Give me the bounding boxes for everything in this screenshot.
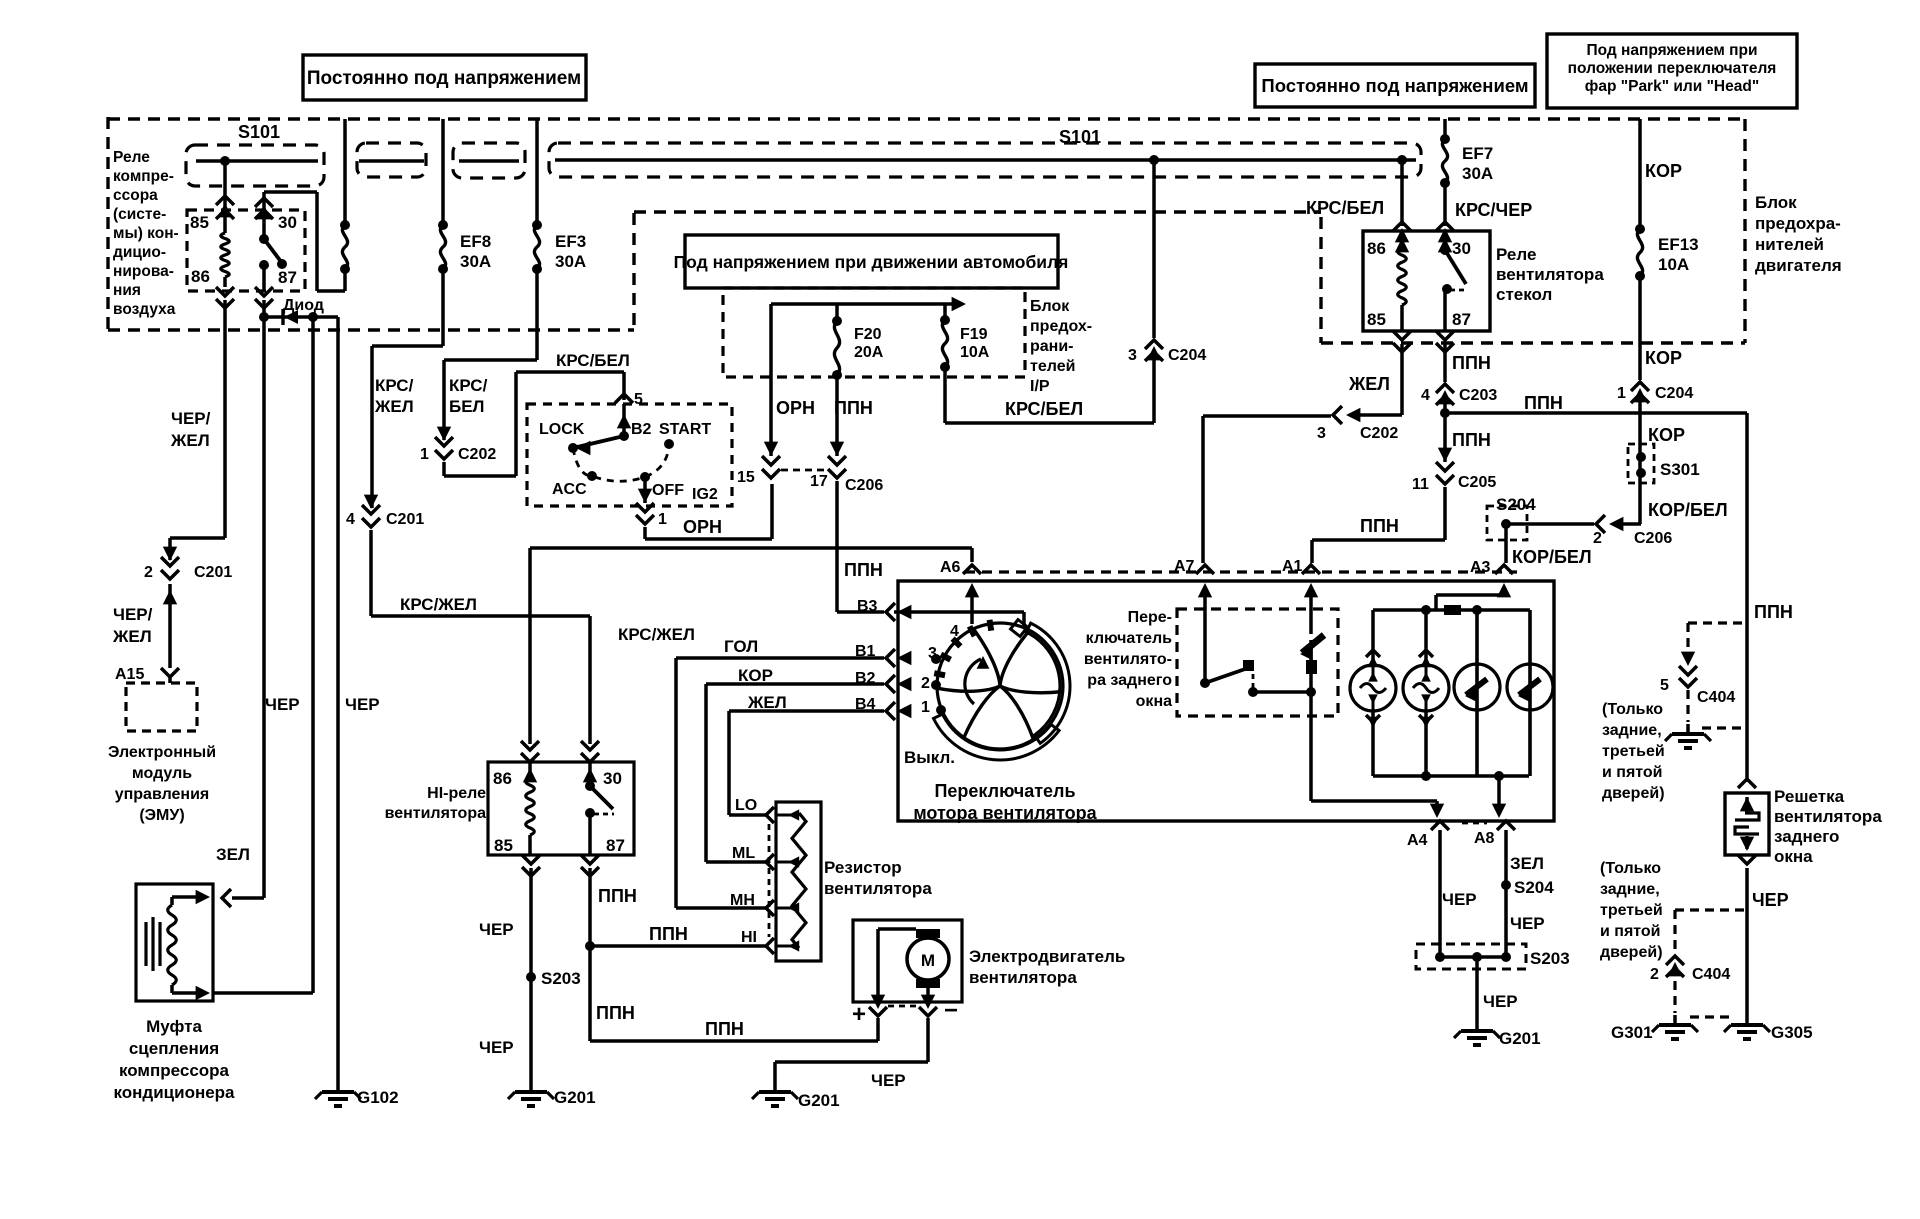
svg-text:ЖЕЛ: ЖЕЛ [112, 627, 152, 646]
svg-text:C404: C404 [1692, 966, 1730, 983]
svg-text:2: 2 [1650, 966, 1659, 983]
svg-text:окна: окна [1136, 693, 1172, 710]
svg-text:86: 86 [493, 769, 512, 788]
svg-text:LO: LO [735, 797, 757, 814]
svg-text:компре-: компре- [113, 168, 174, 185]
svg-text:фар "Park" или "Head": фар "Park" или "Head" [1585, 78, 1759, 95]
svg-text:Под напряжением при движении а: Под напряжением при движении автомобиля [674, 252, 1069, 272]
svg-text:C201: C201 [194, 564, 232, 581]
svg-text:КОР/БЕЛ: КОР/БЕЛ [1648, 500, 1728, 520]
svg-text:дверей): дверей) [1602, 785, 1665, 802]
svg-text:ЧЕР: ЧЕР [1442, 890, 1477, 909]
svg-text:87: 87 [278, 268, 297, 287]
svg-text:10A: 10A [960, 344, 990, 361]
svg-text:вентилятора: вентилятора [385, 805, 487, 822]
svg-text:дверей): дверей) [1600, 944, 1663, 961]
svg-text:B2: B2 [631, 421, 652, 438]
svg-text:(Только: (Только [1602, 701, 1663, 718]
svg-text:G102: G102 [357, 1088, 399, 1107]
svg-text:ЖЕЛ: ЖЕЛ [747, 693, 787, 712]
svg-text:двигателя: двигателя [1755, 256, 1842, 275]
svg-text:телей: телей [1030, 358, 1075, 375]
svg-text:вентилятора: вентилятора [1496, 265, 1604, 284]
svg-text:B3: B3 [857, 598, 878, 615]
svg-text:3: 3 [1317, 425, 1326, 442]
svg-text:85: 85 [1367, 310, 1386, 329]
svg-text:HI-реле: HI-реле [427, 785, 486, 802]
svg-text:нителей: нителей [1755, 235, 1824, 254]
svg-text:C204: C204 [1168, 347, 1206, 364]
svg-text:3: 3 [1128, 347, 1137, 364]
svg-text:ссора: ссора [113, 187, 158, 204]
svg-text:11: 11 [1412, 476, 1429, 493]
svg-text:A6: A6 [940, 559, 961, 576]
svg-text:ППН: ППН [1452, 430, 1491, 450]
svg-text:A4: A4 [1407, 832, 1428, 849]
svg-text:ЗЕЛ: ЗЕЛ [1510, 854, 1544, 873]
svg-text:и пятой: и пятой [1602, 764, 1663, 781]
svg-text:IG2: IG2 [692, 486, 718, 503]
svg-text:ЧЕР: ЧЕР [479, 920, 514, 939]
svg-text:ЧЕР: ЧЕР [479, 1038, 514, 1057]
svg-text:S101: S101 [238, 122, 280, 142]
svg-text:S204: S204 [1514, 878, 1554, 897]
svg-text:C204: C204 [1655, 385, 1693, 402]
svg-text:мотора вентилятора: мотора вентилятора [913, 803, 1097, 823]
svg-text:ОРН: ОРН [776, 398, 815, 418]
svg-text:стекол: стекол [1496, 285, 1552, 304]
svg-text:1: 1 [658, 511, 667, 528]
svg-text:КРС/ЖЕЛ: КРС/ЖЕЛ [400, 595, 477, 614]
svg-text:нирова-: нирова- [113, 263, 174, 280]
svg-text:КРС/ЧЕР: КРС/ЧЕР [1455, 200, 1532, 220]
svg-text:и пятой: и пятой [1600, 923, 1661, 940]
svg-text:ЧЕР/: ЧЕР/ [171, 409, 211, 428]
svg-text:ЧЕР: ЧЕР [1752, 890, 1789, 910]
svg-text:КОР: КОР [738, 666, 773, 685]
svg-text:C201: C201 [386, 511, 424, 528]
svg-text:4: 4 [346, 511, 355, 528]
svg-text:87: 87 [1452, 310, 1471, 329]
svg-text:Переключатель: Переключатель [934, 781, 1075, 801]
svg-text:ОРН: ОРН [683, 517, 722, 537]
svg-text:A7: A7 [1174, 558, 1195, 575]
svg-text:КОР: КОР [1645, 348, 1682, 368]
svg-text:предох-: предох- [1030, 318, 1092, 335]
svg-text:ППН: ППН [1754, 602, 1793, 622]
svg-text:30: 30 [1452, 239, 1471, 258]
svg-text:C202: C202 [1360, 425, 1398, 442]
svg-text:ППН: ППН [596, 1003, 635, 1023]
svg-text:A15: A15 [115, 666, 144, 683]
svg-text:мы) кон-: мы) кон- [113, 225, 179, 242]
svg-text:вентилято-: вентилято- [1084, 651, 1172, 668]
svg-text:ния: ния [113, 282, 141, 299]
svg-text:C203: C203 [1459, 387, 1497, 404]
svg-text:(систе-: (систе- [113, 206, 166, 223]
svg-text:EF7: EF7 [1462, 144, 1493, 163]
svg-text:положении переключателя: положении переключателя [1568, 60, 1777, 77]
svg-text:Выкл.: Выкл. [904, 748, 955, 767]
svg-text:G201: G201 [1499, 1029, 1541, 1048]
svg-text:30A: 30A [1462, 164, 1493, 183]
svg-text:ACC: ACC [552, 481, 587, 498]
svg-text:(Только: (Только [1600, 860, 1661, 877]
svg-text:Диод: Диод [283, 297, 324, 314]
svg-text:предохра-: предохра- [1755, 214, 1841, 233]
svg-text:B4: B4 [855, 696, 876, 713]
svg-text:3: 3 [928, 645, 937, 662]
svg-text:B2: B2 [855, 670, 876, 687]
svg-text:Блок: Блок [1030, 298, 1070, 315]
svg-text:Реле: Реле [113, 149, 150, 166]
svg-text:G201: G201 [798, 1091, 840, 1110]
svg-text:КОР: КОР [1645, 161, 1682, 181]
svg-text:2: 2 [144, 564, 153, 581]
svg-text:ЗЕЛ: ЗЕЛ [216, 845, 250, 864]
svg-text:15: 15 [737, 469, 755, 486]
svg-text:сцепления: сцепления [129, 1039, 219, 1058]
svg-text:ППН: ППН [834, 398, 873, 418]
svg-text:ЖЕЛ: ЖЕЛ [374, 397, 414, 416]
svg-text:ра заднего: ра заднего [1087, 672, 1172, 689]
svg-text:2: 2 [1593, 530, 1602, 547]
svg-text:2: 2 [921, 675, 930, 692]
svg-text:ППН: ППН [1360, 516, 1399, 536]
svg-text:C404: C404 [1697, 689, 1735, 706]
svg-text:HI: HI [741, 929, 757, 946]
svg-text:4: 4 [1421, 387, 1430, 404]
svg-text:ЖЕЛ: ЖЕЛ [170, 431, 210, 450]
svg-text:третьей: третьей [1602, 743, 1665, 760]
svg-text:30A: 30A [555, 252, 586, 271]
svg-text:Постоянно под напряжением: Постоянно под напряжением [307, 68, 581, 89]
svg-text:ЧЕР/: ЧЕР/ [113, 605, 153, 624]
svg-text:ML: ML [732, 845, 755, 862]
svg-text:КРС/БЕЛ: КРС/БЕЛ [556, 351, 630, 370]
svg-text:17: 17 [810, 473, 828, 490]
svg-text:S101: S101 [1059, 127, 1101, 147]
svg-text:C206: C206 [845, 477, 883, 494]
svg-text:КРС/БЕЛ: КРС/БЕЛ [1005, 399, 1083, 419]
svg-text:окна: окна [1774, 847, 1813, 866]
svg-text:86: 86 [191, 267, 210, 286]
svg-text:C202: C202 [458, 446, 496, 463]
svg-text:ЧЕР: ЧЕР [1483, 992, 1518, 1011]
svg-text:управления: управления [115, 786, 210, 803]
svg-text:ЖЕЛ: ЖЕЛ [1348, 374, 1390, 394]
svg-text:C206: C206 [1634, 530, 1672, 547]
svg-text:I/P: I/P [1030, 378, 1050, 395]
svg-text:КРС/ЖЕЛ: КРС/ЖЕЛ [618, 625, 695, 644]
svg-text:A1: A1 [1282, 558, 1303, 575]
svg-text:5: 5 [1660, 677, 1669, 694]
svg-text:компрессора: компрессора [119, 1061, 230, 1080]
svg-text:EF8: EF8 [460, 232, 491, 251]
svg-text:START: START [659, 421, 711, 438]
svg-text:Решетка: Решетка [1774, 787, 1845, 806]
svg-text:Реле: Реле [1496, 245, 1536, 264]
svg-text:30: 30 [603, 769, 622, 788]
svg-text:КОР: КОР [1648, 425, 1685, 445]
svg-text:КРС/: КРС/ [449, 376, 488, 395]
svg-text:85: 85 [190, 213, 209, 232]
svg-text:КРС/БЕЛ: КРС/БЕЛ [1306, 198, 1384, 218]
svg-text:воздуха: воздуха [113, 301, 176, 318]
svg-text:(ЭМУ): (ЭМУ) [139, 807, 184, 824]
svg-text:ППН: ППН [1524, 393, 1563, 413]
svg-text:C205: C205 [1458, 474, 1496, 491]
svg-text:Электронный: Электронный [108, 744, 216, 761]
svg-text:ППН: ППН [844, 560, 883, 580]
svg-text:ЧЕР: ЧЕР [1510, 914, 1545, 933]
svg-text:+: + [852, 1001, 866, 1028]
svg-text:10A: 10A [1658, 255, 1689, 274]
svg-text:30A: 30A [460, 252, 491, 271]
svg-text:КОР/БЕЛ: КОР/БЕЛ [1512, 547, 1592, 567]
svg-text:G301: G301 [1611, 1023, 1653, 1042]
svg-text:MH: MH [730, 892, 755, 909]
svg-text:заднего: заднего [1774, 827, 1839, 846]
svg-text:LOCK: LOCK [539, 421, 585, 438]
svg-text:вентилятора: вентилятора [824, 879, 932, 898]
svg-text:рани-: рани- [1030, 338, 1074, 355]
svg-text:КРС/: КРС/ [375, 376, 414, 395]
svg-text:Резистор: Резистор [824, 858, 902, 877]
svg-text:F19: F19 [960, 326, 988, 343]
svg-text:S204: S204 [1496, 495, 1536, 514]
svg-text:EF3: EF3 [555, 232, 586, 251]
svg-text:ППН: ППН [649, 924, 688, 944]
svg-text:задние,: задние, [1602, 722, 1662, 739]
svg-text:85: 85 [494, 836, 513, 855]
svg-text:Электродвигатель: Электродвигатель [969, 947, 1125, 966]
svg-text:вентилятора: вентилятора [969, 968, 1077, 987]
svg-text:86: 86 [1367, 239, 1386, 258]
svg-text:1: 1 [921, 699, 930, 716]
svg-text:ППН: ППН [705, 1019, 744, 1039]
svg-text:87: 87 [606, 836, 625, 855]
svg-text:задние,: задние, [1600, 881, 1660, 898]
svg-text:OFF: OFF [652, 482, 684, 499]
svg-text:третьей: третьей [1600, 902, 1663, 919]
svg-text:дицио-: дицио- [113, 244, 166, 261]
svg-text:G201: G201 [554, 1088, 596, 1107]
svg-text:20A: 20A [854, 344, 884, 361]
svg-text:модуль: модуль [132, 765, 192, 782]
svg-text:ЧЕР: ЧЕР [871, 1071, 906, 1090]
svg-text:Пере-: Пере- [1128, 609, 1172, 626]
svg-text:Постоянно под напряжением: Постоянно под напряжением [1261, 75, 1528, 96]
svg-text:A8: A8 [1474, 830, 1495, 847]
svg-text:Блок: Блок [1755, 193, 1797, 212]
svg-text:M: M [921, 951, 935, 970]
svg-text:ППН: ППН [598, 886, 637, 906]
svg-text:БЕЛ: БЕЛ [449, 397, 485, 416]
svg-text:S203: S203 [541, 969, 581, 988]
svg-text:S203: S203 [1530, 949, 1570, 968]
svg-text:ключатель: ключатель [1086, 630, 1173, 647]
svg-text:30: 30 [278, 213, 297, 232]
svg-text:B1: B1 [855, 643, 876, 660]
svg-text:−: − [944, 997, 958, 1024]
svg-text:вентилятора: вентилятора [1774, 807, 1882, 826]
svg-text:S301: S301 [1660, 460, 1700, 479]
svg-text:1: 1 [420, 446, 429, 463]
svg-text:ГОЛ: ГОЛ [724, 637, 758, 656]
svg-text:ЧЕР: ЧЕР [265, 695, 300, 714]
svg-text:ППН: ППН [1452, 353, 1491, 373]
svg-text:F20: F20 [854, 326, 882, 343]
svg-text:EF13: EF13 [1658, 235, 1699, 254]
svg-text:A3: A3 [1470, 559, 1491, 576]
svg-text:1: 1 [1617, 385, 1626, 402]
svg-text:G305: G305 [1771, 1023, 1813, 1042]
svg-text:кондиционера: кондиционера [113, 1083, 235, 1102]
svg-text:Под напряжением при: Под напряжением при [1586, 42, 1757, 59]
svg-text:ЧЕР: ЧЕР [345, 695, 380, 714]
svg-text:Муфта: Муфта [146, 1017, 202, 1036]
